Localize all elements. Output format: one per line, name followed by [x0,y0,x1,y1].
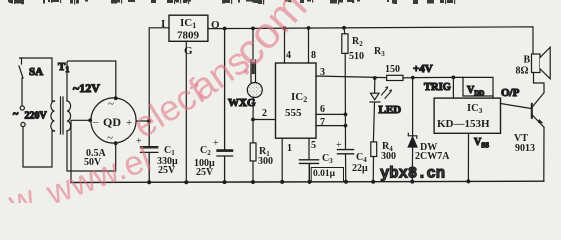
wire pin3 [316,76,387,78]
svg-text:555: 555 [285,107,302,119]
bridge rectifier QD [88,96,136,145]
svg-text:25V: 25V [158,165,176,176]
svg-text:25V: 25V [196,167,214,178]
svg-text:22μ: 22μ [352,163,368,174]
svg-text:8Ω: 8Ω [516,66,529,77]
capacitor C3 [300,153,344,182]
wire VSS [468,133,489,181]
svg-text:I: I [161,18,165,30]
wire pin5 [308,138,310,159]
label O/P and base wire [501,87,532,109]
speaker B 8ohm [516,47,551,93]
svg-text:0.01μ: 0.01μ [313,169,336,179]
svg-text:~12V: ~12V [73,81,100,95]
wire pin1 [281,138,283,182]
watermark elecfans diagonal [3,0,317,223]
svg-text:WXG: WXG [228,97,256,109]
svg-text:~: ~ [13,109,19,120]
svg-text:B: B [524,55,531,66]
svg-text:LED: LED [379,104,402,116]
capacitor C1 [136,121,178,183]
wire secondary top to QD top [67,61,116,101]
wire secondary bottom loop to QD bottom [67,131,116,171]
wire pin8 [308,28,310,63]
svg-text:~: ~ [108,98,114,110]
resistor R1 [250,118,273,183]
svg-text:–: – [92,116,99,128]
resistor R3 [374,46,413,81]
svg-text:+4V: +4V [413,63,433,75]
top rail wire [208,27,533,54]
svg-text:O/P: O/P [501,87,520,99]
voltage regulator IC1 7809 [161,15,220,182]
svg-text:7809: 7809 [177,30,200,42]
svg-text:150: 150 [385,64,400,75]
cropped header text row [8,0,455,5]
wire mains loop with switch box [19,58,55,167]
wire pin7 [316,125,346,127]
zener diode DW [408,78,450,182]
wire pin4 [284,28,286,63]
node +4V [411,63,455,80]
svg-text:QD: QD [103,115,121,129]
resistor R2 and capacitor C4 chain [336,28,368,182]
timer IC2 555 [262,28,387,182]
svg-text:G: G [184,45,193,57]
svg-text:5: 5 [311,140,316,151]
svg-text:6: 6 [320,104,325,115]
wire QD right to C1 node and IC1 input [136,28,169,121]
transistor VT 9013 [514,93,544,181]
bottom ground rail [71,179,544,184]
svg-text:~: ~ [107,132,113,144]
svg-text:7: 7 [320,117,325,128]
svg-text:+: + [336,140,342,151]
melody IC3 KD-153H [434,98,500,133]
svg-text:2: 2 [262,108,267,119]
svg-text:+: + [213,138,219,149]
svg-text:300: 300 [381,151,396,162]
svg-text:4: 4 [286,50,291,61]
transformer T1 [51,61,71,134]
wire pin2 [253,119,276,121]
wire TRIG [424,77,453,98]
capacitor C2 [194,29,233,183]
svg-text:2CW7A: 2CW7A [415,151,450,162]
svg-text:KD—153H: KD—153H [437,118,490,130]
svg-text:510: 510 [349,51,364,62]
wire pin6 [316,113,346,115]
svg-text:O: O [211,19,220,31]
svg-text:300: 300 [258,156,273,167]
LED [370,76,401,142]
svg-text:8: 8 [311,50,316,61]
vibration sensor WXG [228,29,262,120]
label 0.5A 50V [84,148,107,168]
svg-text:SA: SA [29,66,43,78]
svg-text:TRIG: TRIG [424,82,451,93]
wire QD left to ground rail [71,120,91,182]
svg-text:220V: 220V [25,111,48,122]
wire VDD feed [453,77,493,98]
svg-text:1: 1 [287,143,292,154]
capacitor C4 [338,150,354,154]
resistor R4 [371,141,396,182]
svg-text:ybx8.cn: ybx8.cn [380,165,445,183]
svg-text:9013: 9013 [515,143,535,154]
switch SA [19,58,43,127]
